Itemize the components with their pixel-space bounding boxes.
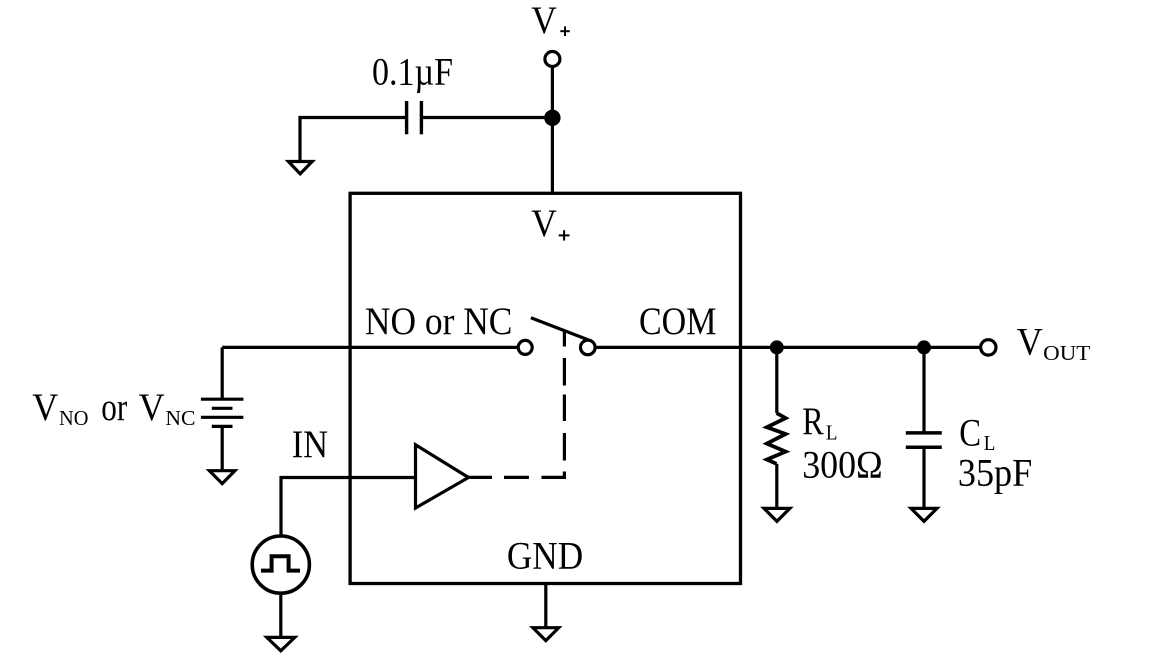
- svg-text:V: V: [531, 201, 557, 245]
- wire GND pin: [544, 584, 547, 628]
- ground (bypass cap): [288, 162, 312, 174]
- svg-text:NO: NO: [59, 407, 88, 430]
- wire battery to ground: [221, 426, 224, 470]
- capacitor C 0.1uF plates: [407, 101, 422, 134]
- wire RL top: [775, 347, 778, 413]
- switch pole COM (open circle): [581, 340, 596, 355]
- wire bypass cap left segment: [300, 118, 407, 162]
- capacitor CL plates: [906, 433, 942, 447]
- svg-text:NC: NC: [165, 407, 195, 430]
- node junction dot (RL tap): [770, 340, 784, 354]
- terminal V+ (open circle): [545, 52, 560, 67]
- battery V_NO/V_NC: [201, 399, 244, 426]
- node junction dot (V+ rail): [544, 110, 560, 126]
- wire COM output: [597, 346, 981, 349]
- svg-text:V: V: [1017, 320, 1043, 364]
- wire CL bottom: [922, 449, 925, 508]
- switch arm: [531, 318, 588, 340]
- pulse waveform glyph: [261, 556, 300, 570]
- svg-text:OUT: OUT: [1043, 342, 1090, 365]
- node junction dot (CL tap): [917, 340, 931, 354]
- label VOUT: [1017, 320, 1091, 365]
- label CL: [959, 410, 995, 455]
- switch contact NO/NC (open circle): [518, 340, 532, 354]
- wire bypass cap right segment: [422, 116, 553, 119]
- label V_NO or V_NC: [32, 385, 195, 430]
- wire CL top: [922, 347, 925, 431]
- svg-text:0.1µF: 0.1µF: [372, 50, 453, 94]
- svg-text:300Ω: 300Ω: [802, 443, 883, 487]
- wire RL bottom: [775, 464, 778, 509]
- dashed actuation line vertical: [563, 332, 566, 461]
- terminal VOUT (open circle): [981, 340, 996, 355]
- wire IN input: [281, 478, 416, 538]
- wire battery top: [221, 347, 224, 399]
- ground (RL): [764, 508, 790, 521]
- resistor RL zigzag: [767, 413, 786, 464]
- svg-text:IN: IN: [292, 422, 328, 466]
- svg-text:NO or NC: NO or NC: [365, 299, 513, 343]
- pulse source circle: [252, 536, 309, 593]
- svg-text:GND: GND: [507, 534, 583, 578]
- svg-text:35pF: 35pF: [958, 450, 1032, 494]
- label V+ (top supply): [531, 0, 570, 42]
- wire NO/NC input: [222, 346, 517, 349]
- ground (CL): [911, 508, 937, 521]
- svg-text:V: V: [32, 385, 58, 429]
- label RL: [802, 399, 837, 445]
- ground (battery): [209, 471, 235, 484]
- label V+ (inside box): [531, 201, 569, 245]
- svg-text:COM: COM: [639, 299, 716, 343]
- svg-text:R: R: [802, 399, 824, 443]
- wire V+ terminal to box top: [551, 67, 554, 194]
- DUT box: [350, 193, 740, 583]
- ground (pulse source): [267, 637, 295, 650]
- ground (DUT GND): [533, 628, 559, 641]
- wire pulse source to ground: [279, 593, 282, 637]
- dashed actuation line horizontal: [469, 472, 565, 478]
- svg-text:V: V: [139, 385, 165, 429]
- svg-text:V: V: [531, 0, 557, 42]
- svg-text:or: or: [101, 385, 127, 429]
- buffer driver triangle: [416, 445, 469, 508]
- svg-text:C: C: [959, 410, 981, 454]
- svg-text:L: L: [826, 422, 838, 445]
